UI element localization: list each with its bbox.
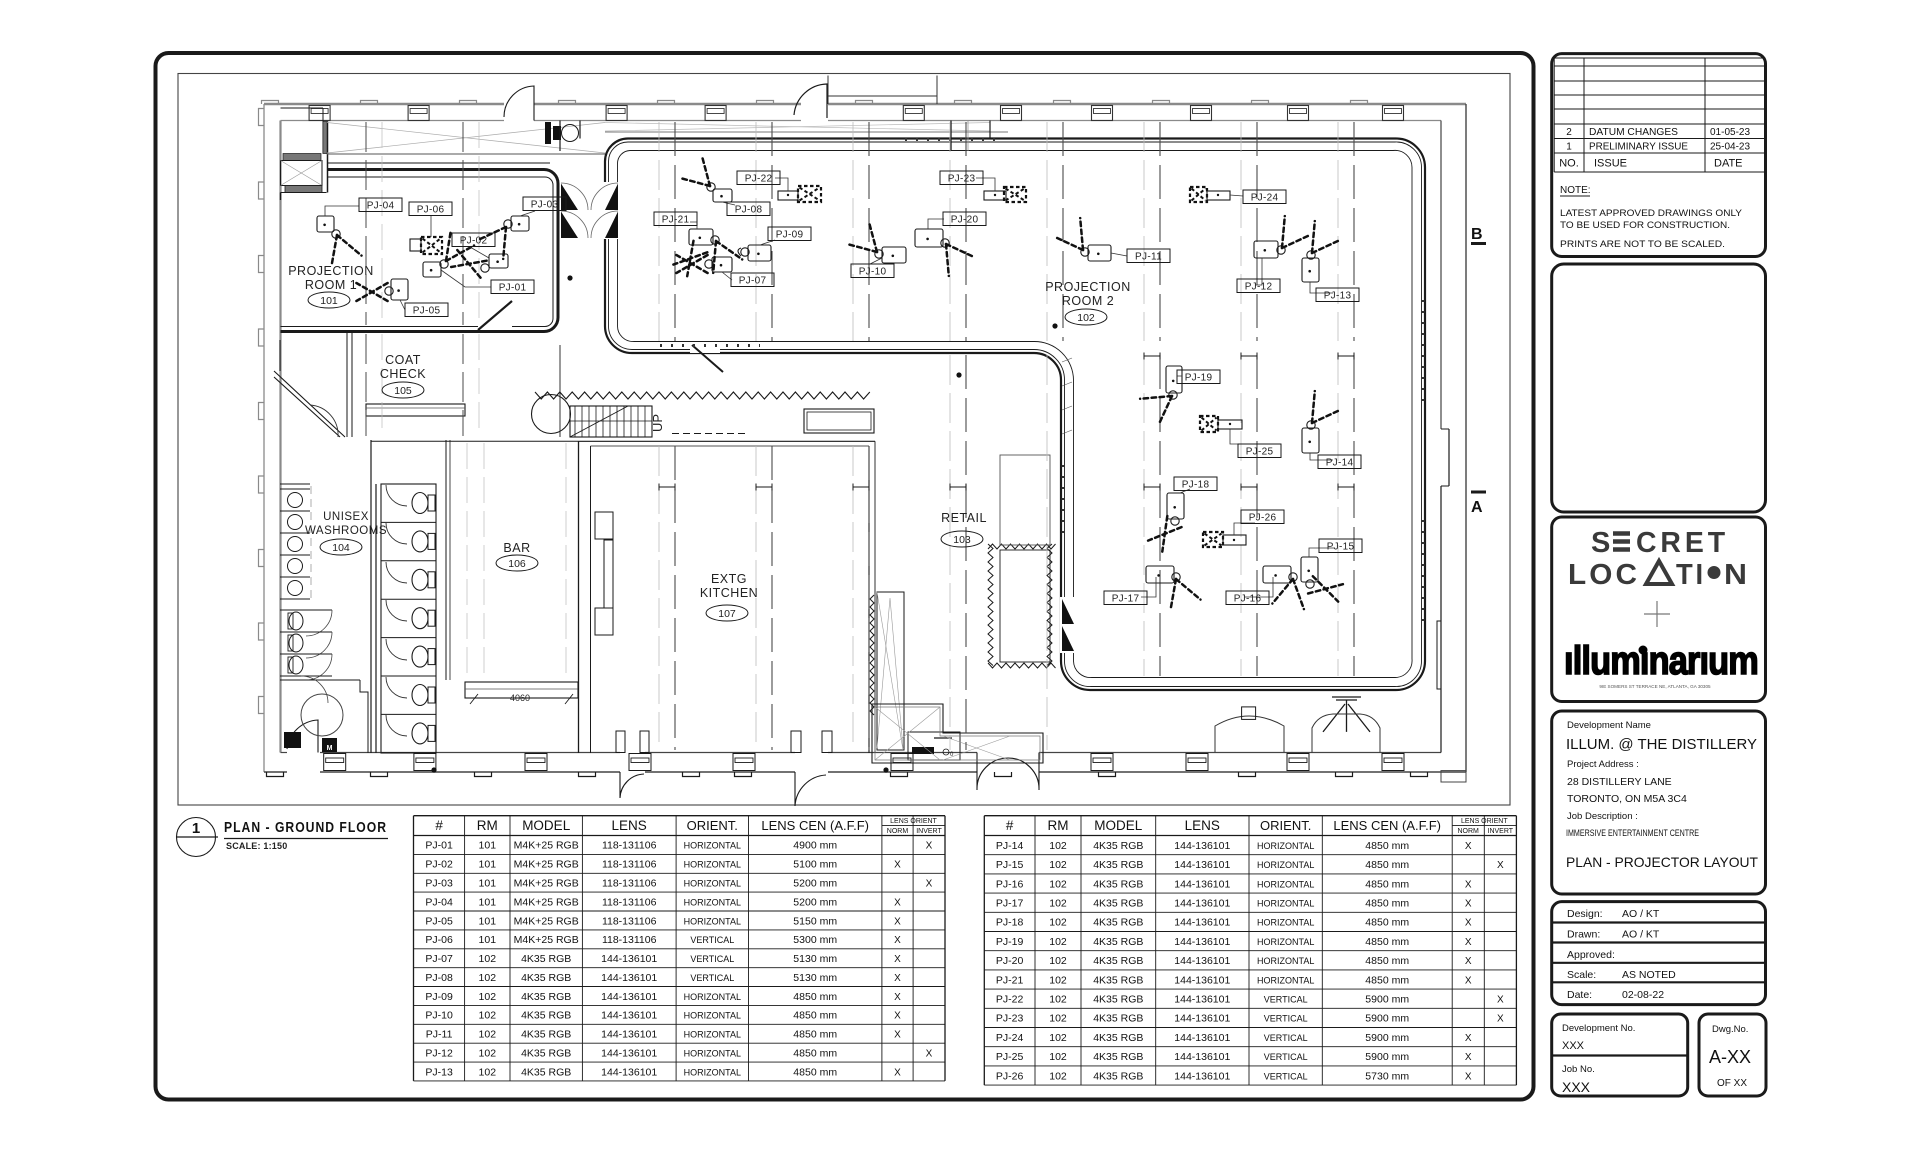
door bottom-bar swing <box>791 731 801 753</box>
coat check counter <box>366 404 465 416</box>
svg-text:AO / KT: AO / KT <box>1622 908 1660 920</box>
washroom wc stalls left <box>280 610 332 680</box>
svg-text:PRELIMINARY ISSUE: PRELIMINARY ISSUE <box>1589 142 1688 153</box>
svg-text:NOTE:: NOTE: <box>1560 185 1591 196</box>
shaft hatched top-left <box>281 108 328 193</box>
logo illuminarium <box>1564 639 1758 683</box>
kitchen equipment <box>595 512 613 539</box>
svg-text:X: X <box>1465 1071 1472 1082</box>
svg-text:4K35 RGB: 4K35 RGB <box>521 991 571 1003</box>
accessible wc room <box>280 676 370 753</box>
projector PJ-18 <box>1148 477 1217 552</box>
svg-text:102: 102 <box>1049 898 1067 910</box>
svg-text:MODEL: MODEL <box>522 818 571 833</box>
svg-text:CRET: CRET <box>1636 527 1729 559</box>
svg-text:ILLUM. @ THE DISTILLERY: ILLUM. @ THE DISTILLERY <box>1566 737 1757 753</box>
projector PJ-19 <box>1140 366 1220 425</box>
svg-text:X: X <box>894 973 901 984</box>
svg-text:PROJECTION: PROJECTION <box>288 264 374 278</box>
svg-text:HORIZONTAL: HORIZONTAL <box>1257 956 1314 966</box>
svg-text:LENS: LENS <box>1185 818 1220 833</box>
svg-text:PJ-15: PJ-15 <box>996 859 1024 871</box>
projector PJ-06 <box>409 202 452 254</box>
svg-text:X: X <box>1465 918 1472 929</box>
bar counter <box>465 682 578 698</box>
svg-text:4K35 RGB: 4K35 RGB <box>1093 1070 1143 1082</box>
svg-text:4K35 RGB: 4K35 RGB <box>1093 936 1143 948</box>
svg-text:ıllumınarıum: ıllumınarıum <box>1564 639 1758 683</box>
door bottom-kitchen swing <box>620 772 644 798</box>
svg-text:102: 102 <box>1049 859 1067 871</box>
door PR2 west leaves <box>603 182 620 239</box>
revision table <box>1554 58 1764 172</box>
svg-text:5900 mm: 5900 mm <box>1365 994 1409 1006</box>
svg-text:INVERT: INVERT <box>1488 828 1514 835</box>
svg-text:4K35 RGB: 4K35 RGB <box>521 953 571 965</box>
svg-text:PJ-09: PJ-09 <box>425 991 453 1003</box>
svg-text:HORIZONTAL: HORIZONTAL <box>1257 899 1314 909</box>
svg-text:MODEL: MODEL <box>1094 818 1143 833</box>
development no box <box>1552 1014 1688 1096</box>
stair circle <box>532 395 571 434</box>
svg-text:PJ-16: PJ-16 <box>996 878 1024 890</box>
svg-text:Design:: Design: <box>1567 908 1603 920</box>
plan title circle <box>177 818 216 857</box>
svg-text:4850 mm: 4850 mm <box>1365 917 1409 929</box>
svg-text:M4K+25 RGB: M4K+25 RGB <box>514 859 579 871</box>
svg-text:4K35 RGB: 4K35 RGB <box>521 1066 571 1078</box>
svg-text:PRINTS ARE NOT TO BE SCALED.: PRINTS ARE NOT TO BE SCALED. <box>1560 239 1725 249</box>
svg-text:Dwg.No.: Dwg.No. <box>1712 1024 1748 1035</box>
svg-text:PJ-11: PJ-11 <box>1135 252 1162 263</box>
svg-text:PJ-24: PJ-24 <box>996 1032 1024 1044</box>
shaft xbox left <box>281 161 323 186</box>
svg-text:118-131106: 118-131106 <box>602 934 657 946</box>
wall exterior top <box>262 101 1467 121</box>
svg-text:PJ-14: PJ-14 <box>1326 458 1354 469</box>
svg-text:144-136101: 144-136101 <box>1174 955 1230 967</box>
svg-text:LENS ORIENT: LENS ORIENT <box>1461 818 1508 825</box>
svg-text:PJ-17: PJ-17 <box>996 898 1024 910</box>
svg-text:1: 1 <box>192 820 200 837</box>
svg-text:101: 101 <box>479 878 497 890</box>
svg-text:103: 103 <box>953 534 971 546</box>
svg-text:102: 102 <box>1049 955 1067 967</box>
svg-text:AO / KT: AO / KT <box>1622 929 1660 941</box>
svg-text:LENS CEN (A.F.F): LENS CEN (A.F.F) <box>1333 818 1441 833</box>
svg-text:PJ-24: PJ-24 <box>1251 193 1279 204</box>
svg-text:101: 101 <box>479 840 497 852</box>
svg-text:5130 mm: 5130 mm <box>793 972 837 984</box>
svg-text:X: X <box>1497 860 1504 871</box>
svg-text:VERTICAL: VERTICAL <box>1264 1052 1308 1062</box>
projector table right <box>984 816 1516 1085</box>
svg-text:144-136101: 144-136101 <box>601 1029 657 1041</box>
svg-text:CHECK: CHECK <box>380 367 426 381</box>
svg-text:PJ-26: PJ-26 <box>1249 513 1277 524</box>
svg-text:144-136101: 144-136101 <box>1174 878 1230 890</box>
shaft hatch band left <box>285 186 322 193</box>
svg-text:#: # <box>1006 818 1014 833</box>
svg-text:X: X <box>1465 841 1472 852</box>
svg-text:PJ-14: PJ-14 <box>996 840 1024 852</box>
projector PJ-01 <box>423 229 534 293</box>
svg-text:HORIZONTAL: HORIZONTAL <box>1257 860 1314 870</box>
projector PJ-10 <box>846 221 906 277</box>
svg-text:5130 mm: 5130 mm <box>793 953 837 965</box>
svg-text:PJ-03: PJ-03 <box>425 878 453 890</box>
svg-text:M4K+25 RGB: M4K+25 RGB <box>514 840 579 852</box>
svg-text:PJ-23: PJ-23 <box>996 1013 1024 1025</box>
svg-text:VERTICAL: VERTICAL <box>690 935 734 945</box>
svg-text:PJ-09: PJ-09 <box>776 230 804 241</box>
svg-text:PJ-12: PJ-12 <box>425 1047 453 1059</box>
svg-text:NORM: NORM <box>887 828 909 835</box>
zigzag wall <box>535 392 870 399</box>
development text <box>1566 720 1758 870</box>
projector PJ-11 <box>1054 218 1170 262</box>
corridor walls <box>559 121 561 152</box>
svg-text:144-136101: 144-136101 <box>1174 936 1230 948</box>
projection room 2 walls <box>605 139 1425 691</box>
projector PJ-04 <box>317 198 402 267</box>
svg-text:XXX: XXX <box>1562 1040 1585 1052</box>
svg-text:101: 101 <box>479 896 497 908</box>
svg-text:M4K+25 RGB: M4K+25 RGB <box>514 934 579 946</box>
svg-text:OF XX: OF XX <box>1717 1078 1747 1089</box>
svg-text:118-131106: 118-131106 <box>602 896 657 908</box>
svg-text:101: 101 <box>479 934 497 946</box>
svg-text:VERTICAL: VERTICAL <box>1264 995 1308 1005</box>
svg-text:PJ-11: PJ-11 <box>426 1029 453 1041</box>
svg-text:4850 mm: 4850 mm <box>1365 974 1409 986</box>
svg-text:118-131106: 118-131106 <box>602 878 657 890</box>
svg-text:HORIZONTAL: HORIZONTAL <box>684 841 741 851</box>
svg-text:PJ-16: PJ-16 <box>1234 594 1262 605</box>
svg-text:144-136101: 144-136101 <box>601 953 657 965</box>
svg-text:X: X <box>1465 937 1472 948</box>
drawing margin line <box>178 74 1510 806</box>
svg-text:HORIZONTAL: HORIZONTAL <box>684 860 741 870</box>
svg-text:X: X <box>894 954 901 965</box>
svg-text:102: 102 <box>1049 1051 1067 1063</box>
svg-text:4850 mm: 4850 mm <box>793 1066 837 1078</box>
svg-text:4850 mm: 4850 mm <box>1365 936 1409 948</box>
svg-text:HORIZONTAL: HORIZONTAL <box>1257 937 1314 947</box>
logo box <box>1552 517 1766 702</box>
svg-text:PJ-08: PJ-08 <box>425 972 453 984</box>
svg-text:PJ-04: PJ-04 <box>367 201 395 212</box>
svg-text:5200 mm: 5200 mm <box>793 896 837 908</box>
svg-text:PJ-07: PJ-07 <box>425 953 453 965</box>
svg-text:Drawn:: Drawn: <box>1567 929 1600 941</box>
svg-text:X: X <box>926 879 933 890</box>
svg-text:144-136101: 144-136101 <box>1174 1032 1230 1044</box>
logo secret location <box>1568 527 1747 591</box>
projector PJ-22 <box>737 171 821 202</box>
svg-text:101: 101 <box>479 859 497 871</box>
washroom stall column <box>371 440 436 753</box>
svg-text:N: N <box>1724 559 1747 591</box>
svg-text:X: X <box>894 1011 901 1022</box>
corridor fixtures <box>545 122 551 144</box>
svg-text:4060: 4060 <box>510 693 530 703</box>
svg-text:HORIZONTAL: HORIZONTAL <box>1257 879 1314 889</box>
projector PJ-25 <box>1200 416 1281 458</box>
svg-text:102: 102 <box>1049 974 1067 986</box>
svg-text:DATE: DATE <box>1714 158 1743 170</box>
dwg no box <box>1699 1014 1766 1096</box>
svg-text:#: # <box>435 818 443 833</box>
svg-text:102: 102 <box>1049 917 1067 929</box>
projector PJ-17 <box>1104 566 1201 611</box>
svg-text:TORONTO, ON M5A 3C4: TORONTO, ON M5A 3C4 <box>1567 793 1687 805</box>
svg-text:PJ-20: PJ-20 <box>996 955 1024 967</box>
projector PJ-03 <box>477 197 566 259</box>
svg-text:5900 mm: 5900 mm <box>1365 1051 1409 1063</box>
svg-text:PJ-17: PJ-17 <box>1112 594 1140 605</box>
svg-text:PJ-19: PJ-19 <box>1185 373 1213 384</box>
svg-text:4K35 RGB: 4K35 RGB <box>1093 898 1143 910</box>
svg-text:KITCHEN: KITCHEN <box>700 586 758 600</box>
svg-text:144-136101: 144-136101 <box>601 972 657 984</box>
page border <box>156 53 1534 1100</box>
svg-text:102: 102 <box>479 953 497 965</box>
svg-text:HORIZONTAL: HORIZONTAL <box>684 1067 741 1077</box>
svg-text:XXX: XXX <box>1562 1079 1591 1095</box>
svg-text:101: 101 <box>320 295 338 307</box>
svg-text:5730 mm: 5730 mm <box>1365 1070 1409 1082</box>
svg-text:102: 102 <box>479 1066 497 1078</box>
truss band corridor <box>327 123 1008 155</box>
revision box <box>1552 54 1766 257</box>
svg-text:4850 mm: 4850 mm <box>793 1047 837 1059</box>
svg-text:PLAN - PROJECTOR LAYOUT: PLAN - PROJECTOR LAYOUT <box>1566 854 1758 870</box>
svg-text:118-131106: 118-131106 <box>602 859 657 871</box>
svg-text:4K35 RGB: 4K35 RGB <box>1093 1051 1143 1063</box>
wall exterior left <box>259 104 281 772</box>
svg-text:144-136101: 144-136101 <box>1174 1051 1230 1063</box>
svg-text:144-136101: 144-136101 <box>601 1066 657 1078</box>
svg-text:4K35 RGB: 4K35 RGB <box>1093 974 1143 986</box>
svg-text:PROJECTION: PROJECTION <box>1045 280 1131 294</box>
svg-text:144-136101: 144-136101 <box>1174 859 1230 871</box>
svg-text:EXTG: EXTG <box>711 572 747 586</box>
svg-text:PJ-05: PJ-05 <box>413 306 441 317</box>
svg-text:UP: UP <box>650 414 665 432</box>
svg-text:M4K+25 RGB: M4K+25 RGB <box>514 878 579 890</box>
svg-text:ROOM 2: ROOM 2 <box>1062 294 1114 308</box>
svg-text:INVERT: INVERT <box>916 828 942 835</box>
tree symbol <box>1323 697 1370 732</box>
svg-text:VERTICAL: VERTICAL <box>690 954 734 964</box>
svg-text:HORIZONTAL: HORIZONTAL <box>684 1048 741 1058</box>
svg-text:LOC: LOC <box>1568 559 1640 591</box>
projector PJ-07 <box>676 255 774 287</box>
door bottom double <box>977 753 1039 791</box>
projector PJ-08 <box>679 155 770 215</box>
svg-text:105: 105 <box>394 385 412 397</box>
svg-text:102: 102 <box>1049 1032 1067 1044</box>
svg-text:4K35 RGB: 4K35 RGB <box>1093 859 1143 871</box>
svg-text:PJ-26: PJ-26 <box>996 1070 1024 1082</box>
svg-text:LENS CEN (A.F.F): LENS CEN (A.F.F) <box>761 818 869 833</box>
svg-text:M: M <box>327 745 333 752</box>
svg-text:4850 mm: 4850 mm <box>1365 859 1409 871</box>
svg-text:PJ-06: PJ-06 <box>425 934 453 946</box>
svg-text:ISSUE: ISSUE <box>1594 158 1627 170</box>
svg-text:107: 107 <box>718 608 736 620</box>
development box <box>1552 711 1766 894</box>
section marker A <box>1471 491 1486 494</box>
note text <box>1560 185 1742 249</box>
svg-text:UNISEX: UNISEX <box>323 511 369 523</box>
svg-text:IMMERSIVE ENTERTAINMENT CENTRE: IMMERSIVE ENTERTAINMENT CENTRE <box>1566 828 1699 838</box>
svg-text:LENS: LENS <box>612 818 647 833</box>
svg-text:RM: RM <box>477 818 498 833</box>
svg-text:X: X <box>926 1048 933 1059</box>
svg-text:A: A <box>1471 499 1483 516</box>
washroom counter dashed <box>310 486 312 598</box>
kitchen table <box>804 409 874 433</box>
door bottom-left swing <box>287 720 318 753</box>
svg-text:PJ-13: PJ-13 <box>1324 291 1352 302</box>
svg-text:PJ-05: PJ-05 <box>425 915 453 927</box>
svg-text:PJ-18: PJ-18 <box>1182 480 1210 491</box>
svg-text:4850 mm: 4850 mm <box>1365 898 1409 910</box>
svg-text:COAT: COAT <box>385 353 421 367</box>
svg-text:102: 102 <box>1049 1013 1067 1025</box>
svg-text:Development No.: Development No. <box>1562 1023 1635 1034</box>
svg-text:4K35 RGB: 4K35 RGB <box>1093 994 1143 1006</box>
svg-text:ORIENT.: ORIENT. <box>1260 818 1311 833</box>
svg-text:PJ-25: PJ-25 <box>996 1051 1024 1063</box>
reference dots <box>1052 323 1057 328</box>
svg-text:HORIZONTAL: HORIZONTAL <box>1257 975 1314 985</box>
svg-text:X: X <box>894 860 901 871</box>
svg-text:LATEST APPROVED DRAWINGS ONLY: LATEST APPROVED DRAWINGS ONLY <box>1560 208 1742 218</box>
stairs <box>570 406 652 437</box>
svg-text:RETAIL: RETAIL <box>941 511 987 525</box>
projector PJ-20 <box>915 212 986 276</box>
svg-text:PJ-10: PJ-10 <box>859 267 887 278</box>
svg-text:BAR: BAR <box>503 541 530 555</box>
svg-text:NORM: NORM <box>1458 828 1480 835</box>
svg-text:HORIZONTAL: HORIZONTAL <box>1257 918 1314 928</box>
svg-text:144-136101: 144-136101 <box>1174 1070 1230 1082</box>
projector PJ-16 <box>1226 566 1304 609</box>
projector PJ-02 <box>451 233 508 278</box>
svg-text:144-136101: 144-136101 <box>1174 917 1230 929</box>
svg-text:118-131106: 118-131106 <box>602 915 657 927</box>
svg-text:PJ-23: PJ-23 <box>948 174 976 185</box>
svg-text:5900 mm: 5900 mm <box>1365 1032 1409 1044</box>
svg-text:PJ-10: PJ-10 <box>425 1010 453 1022</box>
svg-text:VERTICAL: VERTICAL <box>1264 1071 1308 1081</box>
bar room walls <box>445 440 447 680</box>
svg-text:Development Name: Development Name <box>1567 720 1651 731</box>
svg-text:B: B <box>1471 226 1483 243</box>
svg-text:4K35 RGB: 4K35 RGB <box>521 1010 571 1022</box>
svg-text:X: X <box>1497 995 1504 1006</box>
door PR2 retail leaves <box>1060 597 1075 653</box>
projector PJ-13 <box>1302 221 1359 301</box>
svg-text:4K35 RGB: 4K35 RGB <box>1093 917 1143 929</box>
svg-text:PJ-06: PJ-06 <box>417 205 445 216</box>
svg-text:4900 mm: 4900 mm <box>793 840 837 852</box>
svg-text:HORIZONTAL: HORIZONTAL <box>684 897 741 907</box>
svg-text:Project Address :: Project Address : <box>1567 759 1639 770</box>
svg-text:HORIZONTAL: HORIZONTAL <box>684 1030 741 1040</box>
svg-text:X: X <box>894 1030 901 1041</box>
svg-text:4850 mm: 4850 mm <box>793 1010 837 1022</box>
svg-text:X: X <box>1465 975 1472 986</box>
svg-text:4K35 RGB: 4K35 RGB <box>521 1029 571 1041</box>
svg-text:ROOM 1: ROOM 1 <box>305 278 357 292</box>
svg-text:PJ-07: PJ-07 <box>739 276 767 287</box>
svg-text:Job No.: Job No. <box>1562 1064 1595 1075</box>
svg-text:4K35 RGB: 4K35 RGB <box>1093 878 1143 890</box>
svg-text:PJ-22: PJ-22 <box>996 994 1024 1006</box>
svg-text:1: 1 <box>1566 142 1572 153</box>
svg-text:144-136101: 144-136101 <box>1174 994 1230 1006</box>
washroom sink wall <box>280 483 310 485</box>
svg-text:4K35 RGB: 4K35 RGB <box>1093 1013 1143 1025</box>
projector PJ-21 <box>654 212 742 276</box>
projector PJ-14 <box>1302 391 1361 468</box>
svg-text:102: 102 <box>1049 1070 1067 1082</box>
projector PJ-26 <box>1203 510 1284 547</box>
svg-text:28 DISTILLERY LANE: 28 DISTILLERY LANE <box>1567 776 1672 788</box>
canopy bottom-right arc <box>1215 716 1284 752</box>
projection room 1 walls <box>327 162 550 164</box>
svg-text:X: X <box>1465 1033 1472 1044</box>
svg-text:102: 102 <box>1049 994 1067 1006</box>
retail kiosk <box>908 732 960 760</box>
svg-text:HORIZONTAL: HORIZONTAL <box>1257 841 1314 851</box>
svg-text:4K35 RGB: 4K35 RGB <box>1093 840 1143 852</box>
vestibule outline top <box>828 76 937 105</box>
design table box <box>1552 902 1766 1005</box>
svg-text:144-136101: 144-136101 <box>601 991 657 1003</box>
svg-text:PJ-15: PJ-15 <box>1327 542 1355 553</box>
svg-text:102: 102 <box>479 1047 497 1059</box>
svg-text:X: X <box>1465 956 1472 967</box>
svg-text:VERTICAL: VERTICAL <box>690 973 734 983</box>
svg-text:102: 102 <box>479 1010 497 1022</box>
svg-text:102: 102 <box>479 1029 497 1041</box>
svg-text:PJ-21: PJ-21 <box>662 215 690 226</box>
retail zigzag fixture <box>870 455 1056 715</box>
svg-text:4850 mm: 4850 mm <box>793 991 837 1003</box>
svg-text:SCALE: 1:150: SCALE: 1:150 <box>226 841 287 851</box>
empty box <box>1552 264 1766 512</box>
wall ticks <box>1062 358 1072 362</box>
svg-text:4K35 RGB: 4K35 RGB <box>521 972 571 984</box>
wall exterior right <box>1437 104 1466 782</box>
svg-text:PJ-03: PJ-03 <box>531 200 559 211</box>
svg-text:4850 mm: 4850 mm <box>1365 955 1409 967</box>
svg-text:5150 mm: 5150 mm <box>793 915 837 927</box>
door PR2 south-west leaf <box>690 342 720 353</box>
svg-text:X: X <box>1465 899 1472 910</box>
svg-text:HORIZONTAL: HORIZONTAL <box>684 916 741 926</box>
svg-text:Approved:: Approved: <box>1567 949 1615 961</box>
svg-text:X: X <box>1465 879 1472 890</box>
svg-text:X: X <box>894 897 901 908</box>
svg-text:102: 102 <box>479 991 497 1003</box>
svg-text:VERTICAL: VERTICAL <box>1264 1033 1308 1043</box>
